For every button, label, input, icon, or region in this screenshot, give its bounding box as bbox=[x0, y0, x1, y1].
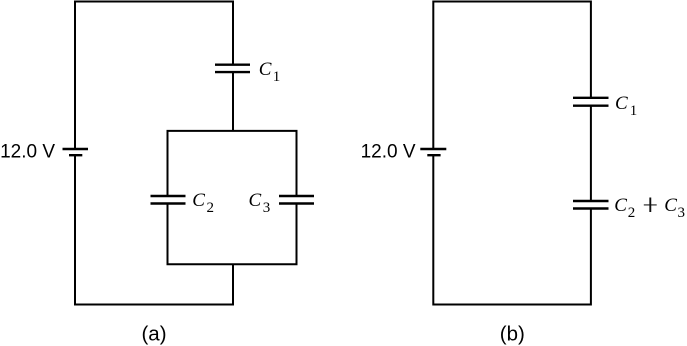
svg-text:12.0 V: 12.0 V bbox=[0, 142, 55, 163]
svg-text:2: 2 bbox=[207, 200, 215, 216]
svg-text:C: C bbox=[614, 195, 627, 216]
svg-text:3: 3 bbox=[263, 200, 271, 216]
svg-text:1: 1 bbox=[273, 69, 281, 85]
svg-text:(b): (b) bbox=[500, 323, 525, 346]
svg-text:C: C bbox=[259, 59, 272, 80]
svg-text:C: C bbox=[192, 190, 205, 211]
svg-text:C: C bbox=[615, 93, 628, 114]
svg-text:(a): (a) bbox=[141, 323, 166, 346]
svg-text:C: C bbox=[664, 195, 677, 216]
svg-text:2: 2 bbox=[628, 205, 636, 221]
svg-text:3: 3 bbox=[678, 205, 686, 221]
svg-text:12.0 V: 12.0 V bbox=[361, 142, 416, 163]
svg-text:C: C bbox=[249, 190, 262, 211]
svg-text:1: 1 bbox=[630, 103, 638, 119]
